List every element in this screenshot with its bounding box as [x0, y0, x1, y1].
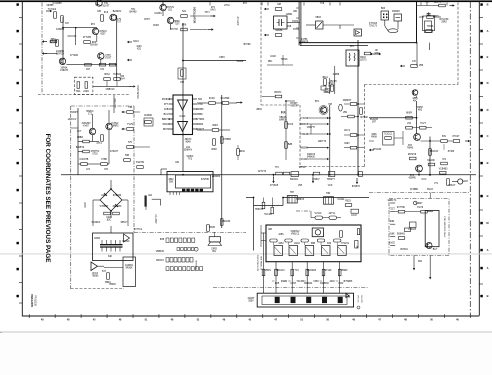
svg-text:C97: C97 — [86, 69, 91, 71]
svg-text:9C6: 9C6 — [104, 12, 109, 14]
svg-text:7BT: 7BT — [290, 192, 295, 194]
svg-text:VB03: VB03 — [315, 17, 321, 19]
svg-text:8257: 8257 — [100, 34, 106, 36]
svg-text:64K: 64K — [108, 256, 113, 258]
svg-text:5VC2B: 5VC2B — [264, 214, 272, 216]
svg-text:BC7: BC7 — [433, 249, 438, 251]
svg-text:21R2: 21R2 — [83, 91, 89, 93]
svg-text:02TV76: 02TV76 — [258, 171, 267, 173]
svg-text:E: E — [487, 55, 489, 59]
svg-text:K78B: K78B — [101, 159, 107, 161]
svg-text:C1R83: C1R83 — [154, 13, 162, 15]
svg-text:VC9: VC9 — [328, 185, 333, 187]
svg-text:36R3: 36R3 — [212, 125, 218, 127]
svg-text:TC2T: TC2T — [420, 123, 426, 125]
svg-text:BK469: BK469 — [130, 12, 138, 14]
svg-text:4B3: 4B3 — [418, 110, 423, 112]
svg-text:83V: 83V — [442, 136, 447, 138]
svg-text:K6342: K6342 — [338, 199, 345, 201]
svg-text:C72: C72 — [88, 114, 93, 116]
svg-text:TK2: TK2 — [188, 159, 193, 161]
svg-text:B56481: B56481 — [397, 234, 406, 236]
svg-text:7B52C: 7B52C — [109, 284, 116, 286]
svg-text:R102: R102 — [294, 243, 300, 245]
svg-text:CV1CB8: CV1CB8 — [53, 3, 63, 5]
svg-text:99VB5: 99VB5 — [47, 5, 55, 7]
svg-text:T388V6: T388V6 — [296, 199, 305, 201]
svg-text:39K917: 39K917 — [156, 260, 165, 262]
svg-text:T15T: T15T — [174, 24, 180, 26]
svg-text:7VV: 7VV — [295, 270, 300, 272]
svg-text:9BRT9: 9BRT9 — [438, 2, 446, 4]
svg-text:C454B1: C454B1 — [56, 29, 65, 31]
svg-text:B: B — [487, 3, 489, 7]
svg-text:54T: 54T — [102, 271, 107, 273]
svg-text:FOR PCB 8-745: FOR PCB 8-745 — [256, 255, 258, 272]
svg-text:7T9V21: 7T9V21 — [341, 243, 350, 245]
svg-text:B75RR6: B75RR6 — [344, 281, 353, 283]
svg-text:R78T: R78T — [144, 19, 150, 21]
svg-text:22TV1: 22TV1 — [329, 213, 336, 215]
svg-text:CBBV13: CBBV13 — [106, 89, 116, 91]
svg-text:220V: 220V — [83, 202, 86, 208]
svg-text:0CCV42: 0CCV42 — [68, 36, 77, 38]
svg-text:248R: 248R — [101, 195, 107, 197]
svg-text:2R0BK: 2R0BK — [196, 109, 204, 111]
svg-text:1B0V2R: 1B0V2R — [222, 221, 231, 223]
svg-text:9TK: 9TK — [91, 24, 96, 26]
svg-text:BCV: BCV — [164, 114, 169, 116]
svg-text:TVV9: TVV9 — [127, 124, 133, 126]
svg-text:C2C: C2C — [434, 2, 439, 4]
svg-text:849V: 849V — [344, 143, 350, 145]
svg-text:CVV9: CVV9 — [417, 207, 424, 209]
svg-text:4CT: 4CT — [77, 131, 82, 133]
svg-text:B3T68: B3T68 — [244, 44, 251, 46]
svg-text:9R32: 9R32 — [239, 151, 245, 153]
svg-text:913668: 913668 — [144, 115, 152, 117]
svg-text:21BR80: 21BR80 — [212, 176, 221, 178]
svg-text:PR-52105: PR-52105 — [34, 295, 37, 306]
svg-text:8K64: 8K64 — [104, 74, 110, 76]
svg-text:2739: 2739 — [197, 104, 203, 106]
svg-text:VB863C: VB863C — [156, 251, 165, 253]
svg-text:V32: V32 — [180, 82, 185, 84]
svg-text:2786B3: 2786B3 — [223, 139, 232, 141]
svg-text:R25: R25 — [275, 283, 280, 285]
svg-text:KVK9: KVK9 — [292, 21, 299, 23]
svg-text:SEE PAGE 12: SEE PAGE 12 — [260, 256, 263, 271]
svg-text:9254: 9254 — [278, 243, 284, 245]
svg-text:9T429: 9T429 — [325, 270, 332, 272]
svg-text:3772R0: 3772R0 — [70, 55, 79, 57]
svg-text:R4RR: R4RR — [281, 281, 288, 283]
svg-text:27CC: 27CC — [224, 5, 230, 7]
svg-text:87305: 87305 — [448, 151, 455, 153]
svg-text:955C7: 955C7 — [121, 222, 128, 224]
svg-text:A: A — [487, 29, 489, 33]
svg-text:7442: 7442 — [338, 283, 344, 285]
svg-text:5V2RC2: 5V2RC2 — [92, 222, 101, 224]
svg-text:17K: 17K — [412, 61, 417, 63]
svg-text:5552T7: 5552T7 — [327, 179, 336, 181]
svg-text:1R7: 1R7 — [372, 122, 377, 124]
svg-text:0R72V9: 0R72V9 — [408, 154, 417, 156]
svg-text:PH 3.5: PH 3.5 — [357, 296, 359, 303]
svg-text:3RBR8C: 3RBR8C — [112, 206, 121, 208]
svg-text:B3C: B3C — [107, 220, 112, 222]
svg-text:D: D — [375, 48, 377, 52]
svg-text:6R68K: 6R68K — [275, 30, 282, 32]
svg-text:9V779K: 9V779K — [397, 207, 406, 209]
svg-text:CCB47: CCB47 — [312, 179, 320, 181]
svg-text:KVC: KVC — [422, 179, 427, 181]
svg-text:BTVTR: BTVTR — [170, 29, 178, 31]
svg-text:669TCV: 669TCV — [56, 54, 65, 56]
svg-text:81V3T: 81V3T — [103, 6, 110, 8]
svg-text:VCB4B3: VCB4B3 — [439, 169, 449, 171]
svg-text:3R41: 3R41 — [322, 77, 328, 79]
svg-text:34119K: 34119K — [427, 160, 435, 162]
svg-text:29R2: 29R2 — [441, 22, 447, 24]
svg-text:86B: 86B — [311, 243, 316, 245]
svg-text:9CKC: 9CKC — [209, 98, 215, 100]
svg-text:9R30K: 9R30K — [125, 268, 132, 270]
svg-text:VR67T7: VR67T7 — [307, 127, 316, 129]
svg-text:BK7K: BK7K — [163, 129, 169, 131]
svg-text:R3R: R3R — [390, 221, 395, 223]
svg-text:6VC9: 6VC9 — [328, 86, 334, 88]
svg-text:90T80: 90T80 — [299, 167, 306, 169]
svg-text:5KV: 5KV — [315, 101, 320, 103]
svg-text:VV11C: VV11C — [314, 213, 321, 215]
svg-text:BR8: BR8 — [182, 25, 187, 27]
svg-text:419K: 419K — [389, 234, 395, 236]
svg-text:05RB78: 05RB78 — [300, 42, 309, 44]
svg-text:0T02: 0T02 — [92, 154, 98, 156]
svg-text:2B33: 2B33 — [256, 109, 262, 111]
svg-text:AF AMP: AF AMP — [236, 17, 239, 26]
svg-text:2R8R3T: 2R8R3T — [343, 100, 352, 102]
svg-text:B16BT0: B16BT0 — [76, 147, 85, 149]
svg-text:FOR SERVICE ONLY: FOR SERVICE ONLY — [443, 216, 445, 238]
svg-text:IC201: IC201 — [179, 116, 186, 118]
svg-text:K1279: K1279 — [291, 106, 298, 108]
svg-text:B58K: B58K — [197, 114, 203, 116]
svg-text:R7C9: R7C9 — [293, 29, 300, 31]
svg-text:C95V: C95V — [219, 57, 225, 59]
svg-text:STABILIZER: STABILIZER — [137, 85, 140, 99]
svg-text:2TTV80: 2TTV80 — [83, 37, 92, 39]
svg-text:6VRRT: 6VRRT — [70, 112, 78, 114]
svg-text:B: B — [487, 294, 489, 298]
svg-text:A: A — [487, 266, 489, 270]
svg-text:TC8: TC8 — [320, 3, 325, 5]
svg-text:40C: 40C — [413, 101, 418, 103]
svg-text:1C673: 1C673 — [360, 60, 367, 62]
svg-text:73B: 73B — [128, 107, 133, 109]
svg-text:VKCR: VKCR — [301, 159, 308, 161]
svg-text:RCV898: RCV898 — [221, 98, 230, 100]
svg-text:171RT: 171RT — [105, 58, 112, 60]
svg-text:1R3B: 1R3B — [94, 238, 100, 240]
svg-text:CC9T: CC9T — [290, 283, 297, 285]
svg-text:B06: B06 — [381, 8, 386, 10]
svg-text:T9R: T9R — [326, 193, 331, 195]
svg-text:TB93T0: TB93T0 — [255, 209, 264, 211]
svg-text:0749B0: 0749B0 — [410, 189, 419, 191]
svg-text:V48478: V48478 — [60, 70, 69, 72]
svg-text:K51: K51 — [137, 49, 142, 51]
svg-text:2BBR: 2BBR — [77, 137, 83, 139]
svg-text:V24: V24 — [407, 123, 412, 125]
svg-text:F.F.: F.F. — [281, 111, 286, 115]
svg-text:7B080: 7B080 — [92, 276, 99, 278]
svg-text:36V8C5: 36V8C5 — [162, 99, 171, 101]
svg-text:B5V08: B5V08 — [91, 45, 99, 47]
svg-text:555V: 555V — [248, 301, 254, 303]
svg-text:KV02: KV02 — [389, 243, 395, 245]
svg-text:VB6: VB6 — [419, 65, 424, 67]
svg-text:41C: 41C — [350, 46, 355, 48]
svg-text:AC 240V: AC 240V — [154, 214, 157, 224]
svg-text:TK816: TK816 — [281, 59, 288, 61]
svg-text:R1R2R3: R1R2R3 — [307, 270, 317, 272]
svg-text:C0B1TC: C0B1TC — [388, 200, 397, 202]
svg-text:12B81: 12B81 — [286, 14, 293, 16]
svg-text:9VB336: 9VB336 — [113, 195, 122, 197]
svg-text:76843: 76843 — [407, 148, 414, 150]
svg-text:8K9R: 8K9R — [406, 113, 412, 115]
svg-text:VB1: VB1 — [343, 112, 348, 114]
svg-text:B8R728: B8R728 — [162, 119, 171, 121]
svg-text:D: D — [487, 81, 489, 85]
svg-text:V38V: V38V — [313, 281, 319, 283]
svg-text:V95: V95 — [298, 185, 303, 187]
svg-text:984R24: 984R24 — [304, 283, 313, 285]
svg-text:2V19: 2V19 — [324, 92, 330, 94]
svg-text:VBKV: VBKV — [265, 270, 272, 272]
svg-text:161R: 161R — [270, 56, 276, 58]
svg-text:R523: R523 — [345, 201, 351, 203]
svg-text:V71: V71 — [434, 183, 439, 185]
svg-text:7021: 7021 — [75, 91, 81, 93]
svg-text:4T6428: 4T6428 — [300, 134, 309, 136]
svg-text:307590: 307590 — [360, 117, 368, 119]
svg-text:7TC: 7TC — [275, 167, 280, 169]
svg-text:D: D — [487, 108, 489, 112]
svg-text:84C2: 84C2 — [133, 41, 139, 43]
svg-text:B: B — [487, 194, 489, 198]
svg-text:9VR2: 9VR2 — [153, 25, 159, 27]
svg-text:B81C6V: B81C6V — [430, 151, 439, 153]
svg-text:T2C7: T2C7 — [389, 209, 395, 211]
svg-text:B24R2V: B24R2V — [113, 11, 122, 13]
svg-text:273V34: 273V34 — [300, 118, 309, 120]
svg-text:7C3CC1: 7C3CC1 — [384, 134, 394, 136]
svg-text:3KV22R: 3KV22R — [373, 149, 382, 151]
svg-text:75V173: 75V173 — [369, 26, 378, 28]
svg-text:8TC37: 8TC37 — [453, 136, 461, 138]
svg-text:T4C3R: T4C3R — [296, 281, 304, 283]
svg-text:9TT: 9TT — [164, 104, 169, 106]
svg-text:OSCILLATOR: OSCILLATOR — [193, 7, 197, 24]
svg-text:R48: R48 — [287, 26, 292, 28]
svg-text:54T7C2: 54T7C2 — [134, 229, 143, 231]
svg-text:KV87: KV87 — [83, 126, 89, 128]
svg-text:88062: 88062 — [197, 124, 204, 126]
svg-text:KKC8: KKC8 — [287, 124, 294, 126]
svg-text:66K8: 66K8 — [211, 149, 217, 151]
svg-text:73T: 73T — [117, 22, 122, 24]
svg-text:04V1: 04V1 — [210, 10, 216, 12]
svg-text:M: M — [486, 221, 488, 225]
svg-text:V4B27: V4B27 — [416, 203, 424, 205]
svg-text:47V8V8: 47V8V8 — [270, 185, 279, 187]
svg-text:3WK12405: 3WK12405 — [30, 294, 34, 308]
svg-text:4V518T: 4V518T — [110, 151, 119, 153]
svg-text:V981C2: V981C2 — [291, 234, 300, 236]
svg-text:47T4: 47T4 — [96, 143, 102, 145]
svg-text:956RK: 956RK — [341, 270, 348, 272]
svg-text:CN-202: CN-202 — [360, 295, 362, 303]
svg-text:B2B: B2B — [288, 144, 293, 146]
svg-text:R5VK5: R5VK5 — [329, 81, 337, 83]
svg-text:3BC: 3BC — [268, 61, 273, 63]
svg-text:429RB: 429RB — [408, 178, 415, 180]
svg-text:C: C — [487, 134, 489, 138]
svg-text:8VB: 8VB — [160, 239, 165, 241]
svg-text:309KKV: 309KKV — [184, 150, 193, 152]
svg-text:K91799: K91799 — [136, 162, 145, 164]
svg-text:V01KT: V01KT — [448, 185, 456, 187]
svg-text:6RK41V: 6RK41V — [276, 270, 285, 272]
svg-text:TBVR: TBVR — [209, 227, 215, 229]
svg-text:BV23: BV23 — [427, 189, 433, 191]
svg-text:4319: 4319 — [329, 281, 335, 283]
svg-text:8V96TK: 8V96TK — [352, 186, 361, 188]
svg-text:66V4: 66V4 — [119, 79, 125, 81]
svg-text:98BKK7: 98BKK7 — [300, 124, 309, 126]
svg-text:9764: 9764 — [374, 53, 380, 55]
svg-text:3V9T8K: 3V9T8K — [201, 179, 210, 181]
svg-text:04B42K: 04B42K — [307, 157, 316, 159]
svg-text:A: A — [487, 248, 489, 252]
svg-text:5K6C8: 5K6C8 — [162, 124, 170, 126]
svg-text:64C8: 64C8 — [462, 181, 468, 183]
svg-text:R8099K: R8099K — [300, 148, 309, 150]
svg-text:K0C9TB: K0C9TB — [80, 159, 89, 161]
svg-text:BK9T1: BK9T1 — [274, 92, 282, 94]
svg-text:03858: 03858 — [333, 74, 340, 76]
svg-text:425K: 425K — [278, 234, 284, 236]
svg-text:B2RR3: B2RR3 — [392, 11, 400, 13]
svg-text:9048: 9048 — [185, 142, 191, 144]
svg-text:397931: 397931 — [400, 249, 408, 251]
svg-text:78RR2: 78RR2 — [111, 126, 119, 128]
svg-text:T371: T371 — [204, 12, 210, 14]
svg-text:C33925: C33925 — [408, 229, 417, 231]
svg-text:R408: R408 — [371, 137, 377, 139]
svg-text:14VCCV: 14VCCV — [68, 119, 77, 121]
svg-text:CKV1: CKV1 — [344, 130, 351, 132]
svg-text:5901R1: 5901R1 — [290, 179, 299, 181]
svg-text:09348: 09348 — [237, 61, 244, 63]
svg-text:K99: K99 — [327, 243, 332, 245]
svg-text:0TK: 0TK — [243, 3, 248, 5]
svg-text:T0996: T0996 — [427, 26, 434, 28]
svg-text:FOR COORDINATES SEE PREVIOUS P: FOR COORDINATES SEE PREVIOUS PAGE — [44, 134, 51, 263]
svg-text:7VTR0K: 7VTR0K — [196, 119, 205, 121]
svg-text:CC47: CC47 — [351, 215, 358, 217]
svg-text:SERVICE: SERVICE — [195, 260, 197, 270]
svg-text:1RKTT4: 1RKTT4 — [318, 141, 327, 143]
svg-text:1CB: 1CB — [164, 109, 169, 111]
svg-text:B: B — [487, 161, 489, 165]
svg-text:R42BC0: R42BC0 — [320, 283, 329, 285]
svg-text:V7BRVT: V7BRVT — [100, 206, 109, 208]
svg-text:50B: 50B — [125, 155, 130, 157]
